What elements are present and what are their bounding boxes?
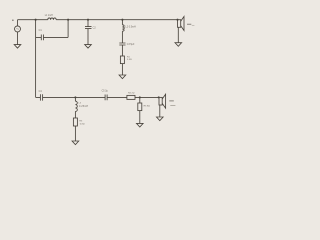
wire bottom rail (36, 96, 159, 98)
node C (mid-branch junction) (121, 19, 123, 21)
capacitor C1 (parallel with L1) (36, 20, 69, 41)
svg-text:R4 2Ω: R4 2Ω (128, 92, 135, 94)
wire SP1 to ground (177, 27, 179, 42)
svg-text:0.25mH: 0.25mH (79, 105, 88, 108)
capacitor C5 (series, bottom) (102, 91, 109, 101)
wire node E to R5 (139, 97, 141, 103)
wire V1 to ground (17, 32, 19, 45)
wire L2 to C3 (121, 31, 123, 43)
wire left rail (35, 20, 37, 98)
ground (R3) (72, 141, 79, 145)
node D (bottom-left junction) (74, 96, 76, 98)
svg-text:L1 1mH: L1 1mH (45, 15, 53, 17)
speaker SP1 (woofer) (176, 17, 194, 31)
resistor R5 (shunt) (138, 103, 150, 111)
ground (C2) (85, 45, 92, 49)
node B (L1/C1 right junction) (67, 19, 69, 21)
inductor L3 (vertical) (75, 97, 88, 111)
svg-text:C5 3µ: C5 3µ (102, 91, 109, 93)
speaker SP2 (tweeter) (158, 94, 176, 108)
wire R5 to ground (139, 111, 141, 124)
ground (R1) (119, 75, 126, 79)
svg-text:C3 5µF: C3 5µF (127, 44, 135, 46)
wire L3 to R3 (74, 111, 76, 118)
svg-text:L2 0.5mH: L2 0.5mH (125, 25, 136, 28)
wire R1 to ground (121, 64, 123, 75)
inductor L1 (45, 15, 57, 20)
resistor R1 (120, 56, 132, 64)
node E (bottom-right junction) (139, 96, 141, 98)
svg-text:3.3Ω: 3.3Ω (127, 59, 132, 61)
inductor L2 (vertical) (122, 20, 136, 32)
capacitor C4 (series, bottom) (39, 90, 43, 101)
wire top rail (18, 19, 178, 21)
capacitor C2 (shunt) (85, 19, 96, 45)
ground (SP2) (157, 117, 164, 121)
capacitor C3 (119, 43, 135, 46)
wire C3 to R1 (121, 45, 123, 56)
resistor R4 (series, bottom) (127, 92, 135, 99)
ground (R5) (137, 123, 144, 127)
ground (SP1) (175, 43, 182, 47)
svg-text:R5 8Ω: R5 8Ω (144, 105, 151, 107)
resistor R3 (73, 118, 84, 126)
node A (junction input) (35, 19, 37, 21)
svg-text:6.8Ω: 6.8Ω (80, 124, 85, 126)
voltage source V1 (12, 20, 20, 32)
wire SP2 to ground (159, 105, 161, 117)
ground (source) (14, 45, 21, 49)
wire R3 to ground (74, 126, 76, 141)
